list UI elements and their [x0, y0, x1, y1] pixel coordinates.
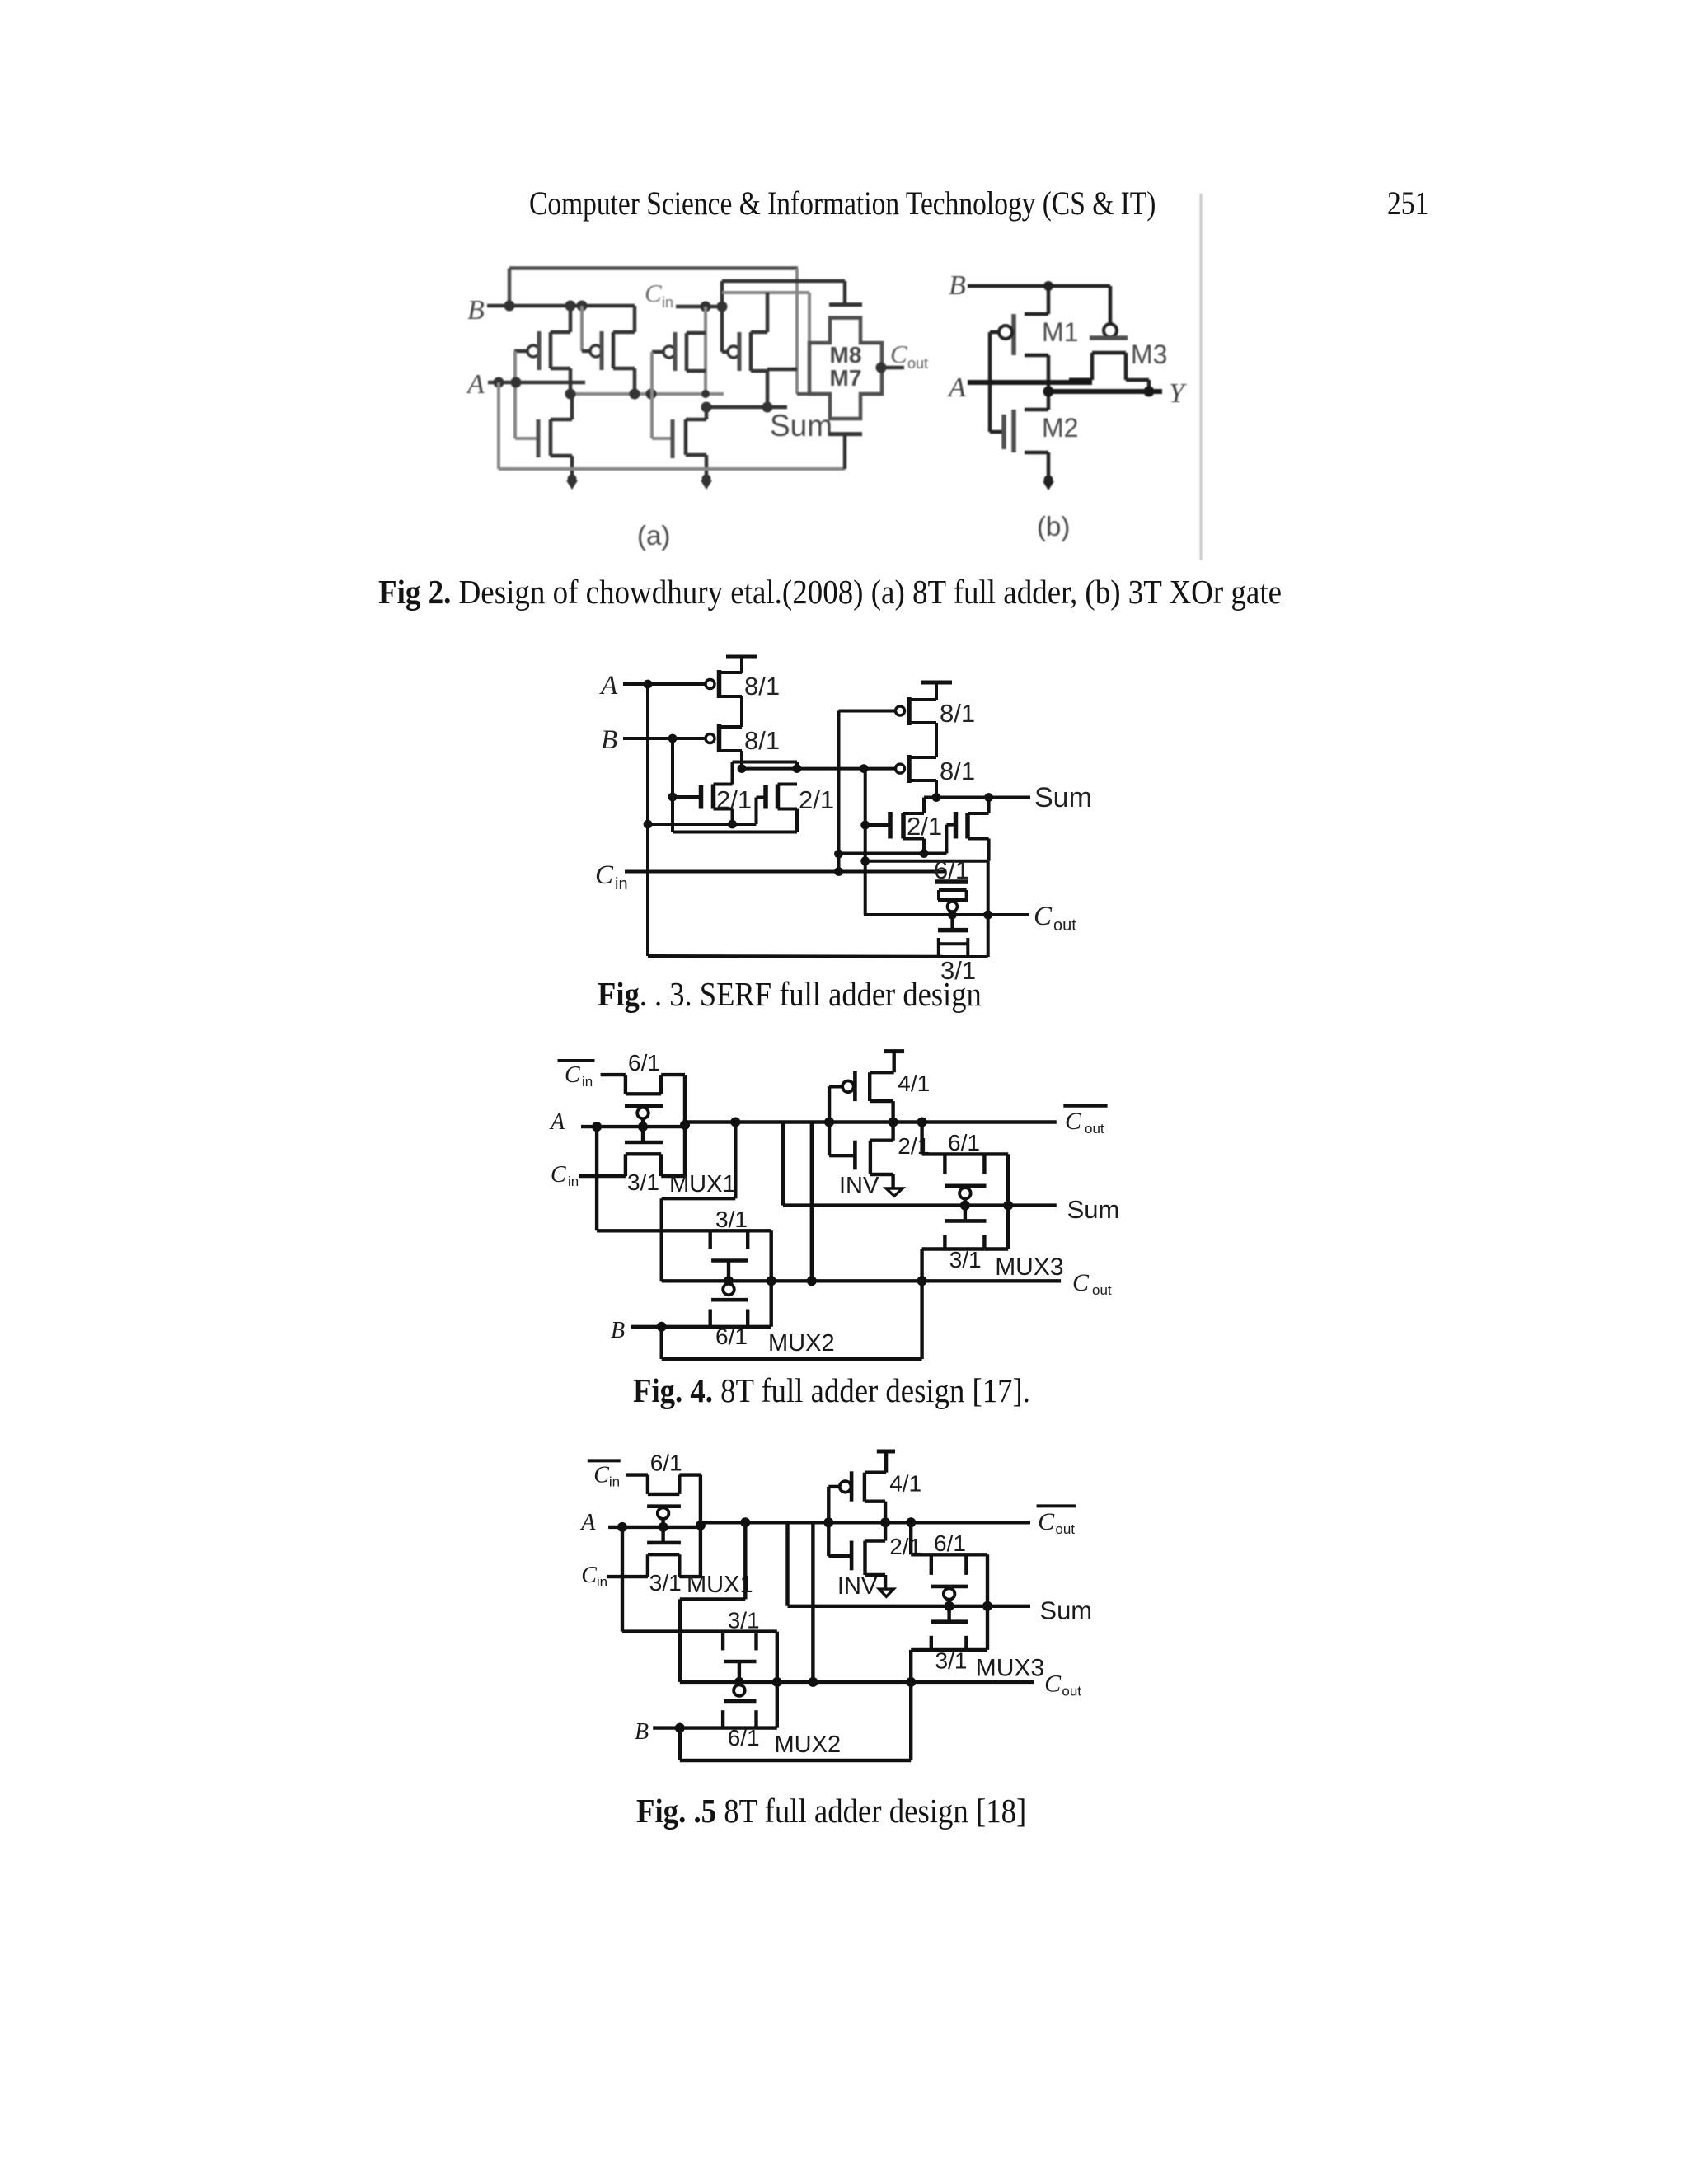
- wire: node line to M8 box (gray): [722, 293, 809, 343]
- node Sum wire (fig5): [788, 1601, 1031, 1611]
- transistor PB 8/1 (pMOS, gate B): [706, 724, 742, 769]
- ground INV (fig4): [886, 1188, 903, 1196]
- node Cout label (fig5): [1044, 1671, 1081, 1699]
- transistor M2 (nMOS): [990, 391, 1048, 477]
- transistor MUX1 pMOS gate (fig5): [647, 1507, 681, 1543]
- node Cout-bar label (fig4): [1063, 1106, 1107, 1137]
- node Cin label: [645, 279, 673, 311]
- node B wire (fig4): [631, 1322, 771, 1332]
- wire: MUX1 output to Cout-bar (fig5): [701, 1517, 1030, 1527]
- wire: source line (B side): [673, 738, 797, 832]
- node Cin label: [595, 860, 628, 893]
- caption figure 2: [378, 572, 1282, 612]
- transistor INV 2/1 nMOS (fig4): [855, 1122, 893, 1188]
- svg-text:MUX1: MUX1: [687, 1572, 753, 1598]
- scan artifact: vertical rule: [1200, 194, 1203, 560]
- junction A: [644, 680, 653, 689]
- transistor MUX1 3/1 pass (fig5): [648, 1554, 701, 1577]
- ground (fig 2b): [1043, 476, 1054, 491]
- node Cin wire (fig4): [579, 1174, 626, 1178]
- wire: A junction vertical (fig5): [622, 1527, 723, 1632]
- transistor INV 4/1 pMOS (fig5): [828, 1471, 886, 1522]
- wire: gate vertical A to N1: [513, 351, 517, 438]
- transistor M3 (pass, gate bubble on top): [1069, 286, 1149, 391]
- power VDD (right): [921, 682, 952, 700]
- svg-text:3/1: 3/1: [728, 1607, 760, 1633]
- node Cin-bar label (fig4): [558, 1061, 595, 1090]
- wire: INV input branch down (fig4): [810, 1122, 814, 1282]
- transistor PD 8/1 (pMOS, stage 2): [896, 755, 937, 798]
- node Cin-bar wire (fig4): [601, 1073, 626, 1076]
- wire: MUX1 right rail (fig5): [699, 1475, 702, 1577]
- transistor NR 2/1 (right): [757, 785, 798, 832]
- node A wire (fig5): [608, 1521, 706, 1532]
- wire: MUX1 wrap (fig5): [680, 1522, 746, 1682]
- svg-text:B: B: [635, 1719, 649, 1745]
- wire: MUX3 branch (fig4): [922, 1122, 945, 1155]
- wire: stage2 gate feed (left vertical): [834, 711, 895, 872]
- wire: bridge over node: [733, 762, 798, 785]
- node A wire (fig4): [581, 1120, 690, 1132]
- page number 251: [1387, 184, 1428, 223]
- svg-text:6/1: 6/1: [650, 1451, 682, 1476]
- node Cin wire: [676, 302, 728, 312]
- node Cout wire (fig5): [680, 1677, 1034, 1687]
- node Cin-bar wire (fig5): [626, 1473, 648, 1476]
- transistor MUX1 3/1 pass (fig4): [626, 1154, 685, 1176]
- wire: to Sum line (fig4): [781, 1122, 785, 1206]
- wire: A junction vertical (fig4): [597, 1127, 710, 1230]
- transistor MUX3 3/1 pass (fig4): [922, 1206, 1009, 1249]
- node Cin wire: [625, 867, 946, 876]
- wire: box notch connections: [797, 392, 882, 396]
- transistor mid (bubble pass): [938, 900, 968, 930]
- node B wire (fig 2b): [968, 281, 1110, 291]
- wire: gate line h1: [839, 852, 947, 855]
- transistor MUX1 6/1 pass (fig4): [626, 1075, 685, 1094]
- svg-text:C: C: [593, 1463, 609, 1488]
- svg-text:out: out: [1055, 1521, 1075, 1537]
- wire: gate vertical to N2: [650, 352, 654, 438]
- wire: MUX3 to bottom rail (fig5): [909, 1650, 912, 1760]
- transistor N1 (nMOS): [515, 394, 572, 476]
- svg-text:C: C: [1038, 1508, 1055, 1535]
- transistor pair M8/M7 box: [809, 318, 882, 419]
- transistor MUX3 gate pair (fig4): [945, 1186, 986, 1221]
- svg-text:6/1: 6/1: [934, 1530, 966, 1556]
- node Cout label: [1034, 902, 1076, 935]
- transistor SR 2/1 (stage2 right): [946, 798, 988, 861]
- wire: MUX1 wrap (fig4): [662, 1122, 736, 1282]
- wire: B to bottom rail (fig5): [680, 1728, 911, 1760]
- transistor P1 (pMOS): [514, 306, 570, 394]
- transistor MUX2 3/1 pass (fig5): [723, 1632, 756, 1651]
- svg-text:Sum: Sum: [1039, 1596, 1092, 1624]
- caption figure 5: [636, 1791, 1026, 1830]
- wire: MUX2 right rail (fig4): [748, 1230, 776, 1327]
- wire: B to bottom rail (fig4): [662, 1327, 922, 1359]
- wire: to Sum line (fig5): [785, 1522, 789, 1606]
- wire: Cin up / M8 gate feed: [722, 281, 845, 352]
- transistor INV 2/1 nMOS (fig5): [851, 1522, 885, 1588]
- svg-text:out: out: [1062, 1684, 1081, 1699]
- transistor MUX2 gate pair (fig4): [711, 1261, 748, 1301]
- wire: MUX3 branch (fig5): [911, 1522, 931, 1554]
- transistor MUX2 6/1 pass (fig4): [710, 1310, 748, 1327]
- wire: Cout riser: [983, 861, 992, 957]
- node A input wire: [488, 377, 585, 388]
- wire: MUX2 right rail (fig5): [757, 1632, 782, 1728]
- power VDD INV (fig5): [877, 1451, 895, 1473]
- svg-text:4/1: 4/1: [889, 1471, 921, 1497]
- wire: MUX3 to bottom rail (fig4): [920, 1249, 923, 1360]
- wire: top rail (Sum feedback): [509, 269, 798, 395]
- node B wire: [623, 734, 705, 743]
- svg-text:in: in: [597, 1574, 607, 1590]
- node B input wire: [487, 301, 635, 312]
- node Y wire: [1043, 387, 1163, 397]
- transistor MUX3 3/1 pass (fig5): [911, 1606, 987, 1650]
- caption figure 3: [598, 974, 982, 1014]
- transistor 6/1 (pass): [934, 855, 969, 900]
- svg-text:MUX2: MUX2: [775, 1732, 842, 1758]
- transistor SL 2/1 (stage2 left): [865, 812, 929, 858]
- wire: INV input branch down (fig5): [811, 1522, 814, 1682]
- node Sum wire: [701, 402, 788, 413]
- wire: XOR node line: [738, 764, 896, 773]
- transistor P3 (pMOS): [652, 332, 706, 371]
- power VDD INV (fig4): [884, 1052, 904, 1073]
- transistor MUX3 gate pair (fig5): [931, 1586, 968, 1622]
- svg-text:C: C: [581, 1563, 597, 1588]
- transistor PA 8/1 (pMOS, gate A): [623, 670, 742, 727]
- wire: XOR1 output node line: [565, 389, 724, 400]
- wire: MUX1 output to Cout-bar (fig4): [685, 1118, 1057, 1127]
- transistor MUX2 gate pair (fig5): [724, 1661, 756, 1701]
- wire: node feed vertical: [860, 769, 870, 915]
- node A wire (fig 2b): [968, 380, 1092, 385]
- node Sum wire (fig4): [783, 1201, 1057, 1211]
- wire: A down to bottom rail: [497, 382, 500, 469]
- transistor MUX2 3/1 pass (fig4): [710, 1230, 748, 1249]
- node Cin label (fig4): [551, 1162, 579, 1189]
- ground (stage 2): [701, 475, 712, 490]
- power VDD (left): [726, 657, 757, 673]
- transistor N2 (nMOS): [652, 407, 706, 476]
- node Cout label: [890, 340, 928, 372]
- wire: gate line h2: [865, 860, 988, 863]
- wire: bottom rail: [648, 954, 988, 958]
- node Cin-bar label (fig5): [588, 1460, 621, 1489]
- node Cout wire (fig4): [662, 1276, 1061, 1286]
- transistor MUX3 6/1 pass (fig5): [931, 1554, 987, 1606]
- svg-text:MUX3: MUX3: [976, 1655, 1044, 1682]
- transistor 3/1 (pass): [939, 938, 968, 957]
- wire: INV gate vertical (fig5): [828, 1487, 851, 1556]
- running head: [529, 184, 1156, 223]
- node Cout wire: [864, 911, 1029, 920]
- transistor PC 8/1 (pMOS, stage 2): [896, 697, 937, 757]
- wire: Cin stem down to node line: [701, 307, 710, 398]
- wire: MUX1 right rail (fig4): [683, 1075, 687, 1176]
- node Cout-bar label (fig5): [1037, 1506, 1076, 1536]
- capacitor-style gate of M7 (bottom plate): [829, 432, 862, 436]
- svg-text:A: A: [579, 1510, 596, 1535]
- transistor MUX3 6/1 pass (fig4): [945, 1154, 1008, 1205]
- svg-text:3/1: 3/1: [935, 1648, 968, 1674]
- node Cin label (fig5): [581, 1563, 607, 1590]
- ground (stage 1): [566, 475, 578, 490]
- node Cout wire: [876, 363, 905, 373]
- transistor MUX1 pMOS gate (fig4): [625, 1106, 663, 1142]
- transistor INV 4/1 pMOS (fig4): [829, 1071, 894, 1122]
- node Cin wire (fig5): [607, 1575, 648, 1578]
- svg-text:C: C: [1044, 1671, 1062, 1698]
- ground INV (fig5): [879, 1589, 894, 1596]
- transistor P4 (pMOS): [722, 293, 797, 407]
- capacitor-style gate of M8 (top plate): [829, 302, 862, 307]
- node Sum wire: [924, 793, 1030, 813]
- transistor MUX1 6/1 pass (fig5): [648, 1475, 701, 1494]
- wire: A vertical to bottom rail: [646, 684, 649, 956]
- node Cout label (fig4): [1072, 1269, 1112, 1298]
- svg-text:in: in: [609, 1474, 620, 1490]
- transistor P2 (pMOS): [582, 306, 635, 394]
- wire: source line (A side): [644, 820, 757, 829]
- transistor M1 (pMOS): [990, 286, 1048, 432]
- wire: INV gate vertical (fig4): [829, 1086, 854, 1155]
- svg-text:INV: INV: [837, 1573, 878, 1600]
- caption figure 4: [633, 1371, 1030, 1410]
- wire: bottom rail: [499, 434, 845, 469]
- svg-text:3/1: 3/1: [649, 1570, 682, 1596]
- transistor NL 2/1 (left): [668, 785, 733, 825]
- node B wire (fig5): [653, 1723, 777, 1733]
- transistor MUX2 6/1 pass (fig5): [723, 1710, 756, 1727]
